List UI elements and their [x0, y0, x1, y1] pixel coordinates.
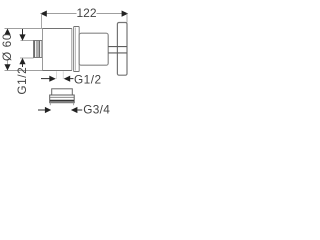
svg-text:122: 122 [76, 6, 96, 20]
arrow right 122 [122, 11, 129, 17]
arrow left (G3/4) [71, 107, 78, 113]
neck pipe lines [108, 46, 127, 48]
extension line G1/2 left top [21, 40, 34, 42]
svg-text:G3/4: G3/4 [83, 102, 110, 116]
arrow up Ø60 [4, 29, 10, 35]
hose nut lower flange [50, 95, 74, 103]
faint extension ticks G1/2 bottom [55, 71, 57, 79]
svg-text:Ø 60: Ø 60 [0, 33, 14, 61]
dimension line Ø60 vertical [7, 29, 9, 35]
body right section [79, 33, 108, 65]
dimension line 122 [42, 13, 77, 15]
arrow down Ø60 [4, 64, 10, 70]
extension line G1/2 left bottom [20, 57, 34, 59]
arrow left (G1/2 bottom) [64, 76, 70, 82]
extension line top (body top, Ø60 dim) [5, 28, 43, 30]
knurled ring [74, 27, 80, 72]
body escutcheon horizontal edges (crisper) [43, 28, 72, 30]
arrow right (G3/4) [38, 109, 46, 111]
ring horizontal edges [74, 26, 79, 28]
arrow right (G1/2 bottom) [41, 78, 50, 80]
thread hatch block (wall thread G1/2) [34, 41, 43, 58]
svg-text:G1/2: G1/2 [15, 67, 29, 95]
body escutcheon (tall section) [43, 29, 72, 71]
extension line 122 right [126, 14, 128, 23]
handle bar (edge view) [117, 23, 127, 76]
extension line 122 left [41, 14, 43, 29]
flange edge nubs [49, 103, 51, 106]
arrow down to thread (G1/2 left) [22, 29, 24, 36]
extension line bottom (body bottom, Ø60 dim) [5, 70, 43, 72]
arrow left 122 [40, 11, 47, 17]
svg-text:G1/2: G1/2 [74, 72, 102, 86]
arrow up to thread (G1/2 left) [19, 58, 25, 64]
hose nut upper [52, 89, 73, 95]
